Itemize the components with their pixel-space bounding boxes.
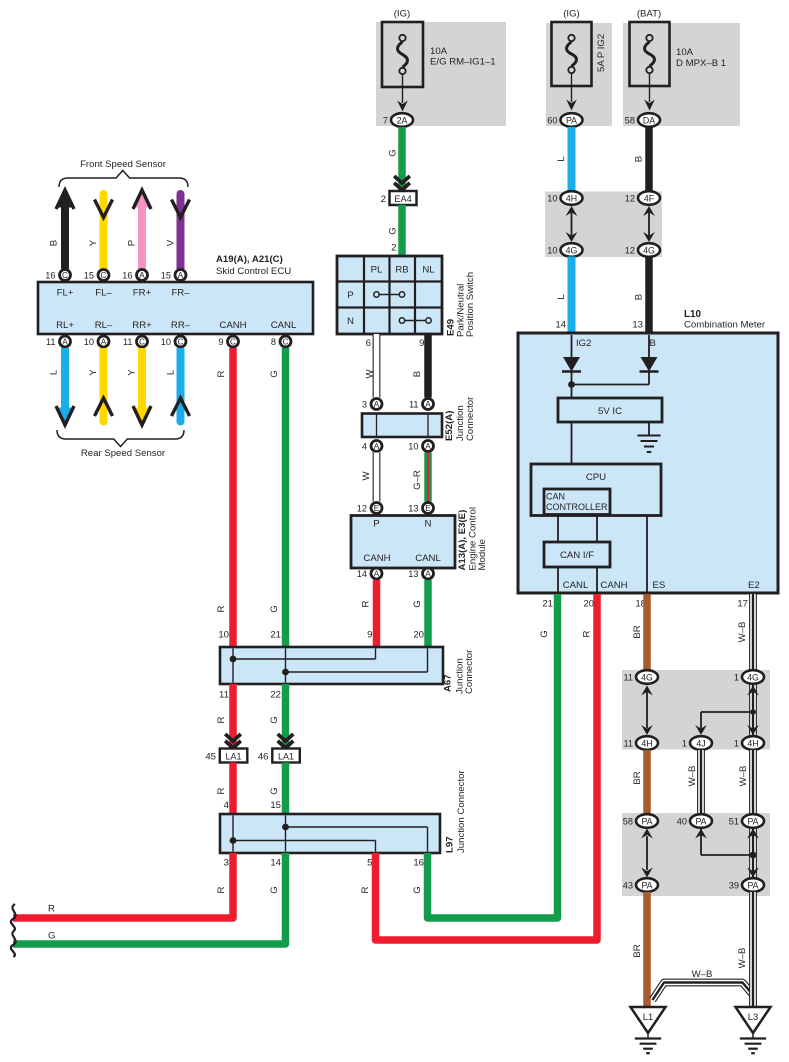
svg-text:W–B: W–B	[737, 948, 748, 969]
svg-text:5A P IG2: 5A P IG2	[596, 34, 607, 72]
wire G from ECM CANL	[424, 580, 432, 647]
svg-text:N: N	[347, 316, 354, 327]
svg-text:LA1: LA1	[225, 752, 241, 762]
wire 5V IC to CPU	[571, 422, 573, 464]
connector block PA	[622, 813, 770, 896]
svg-text:9: 9	[218, 337, 223, 347]
svg-text:ES: ES	[653, 580, 666, 591]
svg-text:FL–: FL–	[95, 288, 112, 299]
connector block 4G to 4H/4J	[622, 670, 770, 750]
connector 40 PA	[677, 814, 712, 828]
svg-text:11: 11	[219, 690, 229, 701]
svg-text:EA4: EA4	[394, 194, 411, 204]
svg-text:13: 13	[408, 569, 418, 579]
internal wiring and diodes	[562, 335, 659, 398]
svg-text:CAN: CAN	[546, 492, 565, 502]
svg-text:16: 16	[413, 858, 424, 869]
wire R L97 pin3 to left	[13, 853, 233, 918]
pin 11 A	[46, 336, 71, 347]
svg-text:CANH: CANH	[600, 580, 627, 591]
combination meter L10	[518, 333, 778, 593]
pin 16 C	[45, 270, 70, 281]
svg-text:Combination Meter: Combination Meter	[684, 320, 766, 331]
wires CAN controller to CAN I/F	[557, 516, 559, 543]
svg-text:16: 16	[122, 271, 132, 281]
pin 12 E	[357, 503, 382, 514]
svg-text:14: 14	[270, 858, 281, 869]
connector 58 PA	[623, 814, 658, 828]
svg-text:RL–: RL–	[95, 320, 113, 331]
svg-text:Y: Y	[88, 369, 99, 376]
svg-text:CANL: CANL	[563, 580, 589, 591]
connector 1 4H	[734, 736, 764, 750]
pin 10 A	[84, 336, 109, 347]
svg-text:21: 21	[270, 630, 281, 641]
svg-text:E52(A): E52(A)	[444, 411, 455, 441]
svg-text:C: C	[230, 338, 236, 347]
svg-text:W: W	[365, 369, 376, 379]
pin 8 C CANL	[271, 336, 291, 347]
svg-text:A67: A67	[443, 674, 454, 692]
svg-text:5: 5	[367, 858, 372, 869]
pass-through arrows	[648, 212, 650, 236]
svg-text:12: 12	[357, 504, 367, 514]
svg-text:3: 3	[224, 858, 229, 869]
svg-text:58: 58	[625, 116, 635, 126]
svg-text:(IG): (IG)	[563, 9, 580, 20]
svg-text:CANL: CANL	[271, 320, 297, 331]
svg-text:4J: 4J	[696, 738, 705, 748]
connector 39 PA	[729, 878, 764, 892]
connector block 4H/4F to 4G	[545, 192, 662, 258]
L10 pin numbers	[542, 599, 748, 610]
svg-text:Connector: Connector	[465, 396, 476, 441]
svg-text:C: C	[283, 338, 289, 347]
5V IC box	[558, 398, 662, 422]
svg-text:E/G RM–IG1–1: E/G RM–IG1–1	[430, 57, 496, 68]
svg-text:11: 11	[623, 739, 633, 749]
skid control ECU A19(A), A21(C)	[38, 282, 313, 334]
svg-text:11: 11	[409, 400, 419, 410]
junction dots	[230, 656, 237, 663]
svg-text:17: 17	[737, 599, 748, 610]
L10 bottom pin labels	[563, 580, 760, 591]
svg-text:B: B	[412, 371, 423, 377]
svg-text:CANL: CANL	[415, 553, 441, 564]
svg-text:10: 10	[84, 337, 94, 347]
connector 60 PA	[547, 113, 582, 127]
svg-text:9: 9	[419, 338, 424, 349]
pin numbers above L97	[224, 800, 281, 811]
pin 4 A	[362, 441, 382, 452]
svg-text:FR+: FR+	[133, 288, 152, 299]
svg-text:Connector: Connector	[464, 649, 475, 694]
wire FR- V (purple, chevron down)	[177, 190, 185, 269]
svg-text:W–B: W–B	[737, 622, 748, 643]
ground L1	[631, 1007, 666, 1053]
svg-text:(BAT): (BAT)	[637, 9, 661, 20]
svg-text:14: 14	[357, 569, 367, 579]
svg-text:45: 45	[205, 752, 216, 763]
svg-text:12: 12	[625, 194, 635, 204]
svg-text:A: A	[425, 442, 431, 451]
svg-text:W–B: W–B	[687, 766, 698, 787]
svg-text:10: 10	[218, 630, 229, 641]
junction dot	[568, 381, 575, 388]
svg-text:3: 3	[362, 400, 367, 410]
svg-text:9: 9	[367, 630, 372, 641]
internal ground	[638, 422, 661, 452]
svg-text:C: C	[62, 271, 68, 280]
svg-text:12: 12	[625, 246, 635, 256]
wire B to combination meter	[645, 257, 653, 336]
wire W-B link to L1	[653, 983, 754, 1001]
pin 3 A	[362, 399, 382, 410]
wire R L97 pin5 to L10 CANH	[376, 594, 598, 940]
svg-text:E: E	[425, 504, 431, 513]
svg-text:21: 21	[542, 599, 553, 610]
connector 46 LA1	[278, 734, 294, 741]
svg-text:CPU: CPU	[586, 472, 606, 483]
svg-text:15: 15	[270, 800, 281, 811]
svg-text:PA: PA	[747, 816, 758, 826]
branch to 4J and 4H	[701, 684, 753, 737]
wire break squiggle	[11, 930, 16, 957]
svg-text:A: A	[62, 338, 68, 347]
svg-text:G: G	[388, 149, 399, 156]
wire W-B from 4J	[697, 750, 705, 814]
wire G L97 pin16 to L10 CANL	[428, 594, 558, 918]
svg-text:B: B	[650, 338, 656, 349]
wire RL+ L (blue, arrow down)	[61, 348, 69, 411]
svg-text:CANH: CANH	[219, 320, 246, 331]
svg-text:PA: PA	[641, 880, 652, 890]
svg-text:A: A	[425, 400, 431, 409]
wire BR from ES	[643, 594, 651, 671]
svg-text:R: R	[216, 716, 227, 723]
wire R A67 to LA1	[229, 684, 237, 749]
wire BR between blocks	[643, 750, 651, 814]
svg-text:L: L	[49, 369, 60, 375]
branch arrows	[695, 686, 759, 736]
svg-text:PA: PA	[566, 115, 577, 125]
pin 13 A	[408, 568, 433, 579]
svg-text:P: P	[373, 519, 379, 530]
svg-text:BR: BR	[632, 625, 643, 638]
svg-text:IG2: IG2	[576, 338, 591, 349]
svg-text:4F: 4F	[644, 193, 655, 203]
svg-text:58: 58	[623, 817, 633, 827]
pass-through arrows	[646, 836, 648, 870]
svg-text:G: G	[539, 630, 550, 637]
svg-text:R: R	[216, 787, 227, 794]
svg-text:60: 60	[547, 116, 557, 126]
wire B from E49 pin 9	[424, 334, 432, 398]
pin 10 A	[408, 441, 433, 452]
svg-text:CAN I/F: CAN I/F	[560, 550, 594, 561]
svg-text:A: A	[139, 271, 145, 280]
svg-text:4H: 4H	[747, 738, 758, 748]
svg-text:R: R	[48, 904, 55, 915]
svg-text:46: 46	[258, 752, 269, 763]
svg-text:39: 39	[729, 881, 739, 891]
connector 58 DA	[625, 113, 660, 127]
svg-text:CONTROLLER: CONTROLLER	[546, 502, 608, 512]
svg-text:1: 1	[734, 739, 739, 749]
svg-text:51: 51	[729, 817, 739, 827]
svg-text:2: 2	[391, 243, 396, 254]
svg-text:15: 15	[161, 271, 171, 281]
svg-text:1: 1	[734, 673, 739, 683]
svg-text:4G: 4G	[641, 672, 653, 682]
svg-text:2: 2	[381, 194, 386, 205]
svg-text:L1: L1	[643, 1011, 653, 1022]
svg-text:G: G	[412, 886, 423, 893]
junction dots	[282, 824, 289, 831]
wire W-B from E2	[749, 594, 757, 671]
junction connector L97	[220, 814, 440, 853]
connector 45 LA1	[225, 734, 241, 741]
svg-text:22: 22	[270, 690, 281, 701]
wire W from E49 pin 6	[373, 334, 381, 398]
svg-text:20: 20	[413, 630, 424, 641]
svg-text:6: 6	[366, 338, 371, 349]
svg-text:B: B	[634, 294, 645, 300]
connector 10 4G	[547, 243, 582, 257]
svg-text:13: 13	[408, 504, 418, 514]
svg-text:R: R	[361, 600, 372, 607]
wire FR+ P (pink, arrow up)	[138, 204, 146, 269]
wire CPU to ES pin	[646, 516, 648, 593]
svg-text:8: 8	[271, 337, 276, 347]
wire G A67 to LA1	[282, 684, 290, 749]
connector 12 4G	[625, 243, 660, 257]
svg-text:10: 10	[161, 337, 171, 347]
svg-text:D MPX–B 1: D MPX–B 1	[676, 58, 726, 69]
svg-text:Y: Y	[127, 369, 138, 376]
svg-text:G: G	[269, 370, 280, 377]
svg-text:FL+: FL+	[57, 288, 74, 299]
svg-text:10A: 10A	[676, 47, 694, 58]
svg-text:W–B: W–B	[692, 969, 713, 980]
svg-text:40: 40	[677, 817, 687, 827]
pin 14 A	[357, 568, 382, 579]
connector 43 PA	[623, 878, 658, 892]
svg-text:10: 10	[547, 246, 557, 256]
wire RR- L (blue, chevron up)	[177, 348, 185, 426]
svg-text:A13(A), E3(E): A13(A), E3(E)	[457, 510, 468, 571]
svg-text:PL: PL	[371, 265, 383, 276]
svg-text:C: C	[139, 338, 145, 347]
pin 15 C	[84, 270, 109, 281]
svg-text:RB: RB	[395, 265, 408, 276]
CPU box	[531, 464, 661, 516]
svg-text:A: A	[101, 338, 107, 347]
pin numbers above A67	[218, 630, 424, 641]
junction connector E52(A)	[362, 414, 442, 438]
contact P: PL-RB	[377, 294, 403, 296]
svg-text:PA: PA	[695, 816, 706, 826]
svg-text:G: G	[269, 605, 280, 612]
svg-text:Module: Module	[477, 539, 488, 570]
CAN I/F box	[544, 542, 610, 567]
svg-text:B: B	[49, 240, 60, 246]
fuse (IG) 5A P IG2	[546, 23, 612, 126]
svg-text:N: N	[425, 519, 432, 530]
svg-text:W: W	[361, 471, 372, 481]
svg-text:NL: NL	[422, 265, 435, 276]
pin 16 A	[122, 270, 147, 281]
svg-text:CANH: CANH	[363, 553, 390, 564]
junction dot	[750, 852, 757, 859]
pin numbers below L97	[224, 858, 424, 869]
connector 1 4J	[682, 736, 712, 750]
wire W to ECM	[373, 453, 381, 502]
pin numbers below A67	[219, 690, 281, 701]
connector EA4 chevrons	[394, 176, 410, 183]
svg-text:BR: BR	[632, 944, 643, 957]
wire G-R to ECM	[424, 453, 432, 502]
fuse (IG) 10A E/G RM-IG1-1	[376, 22, 506, 126]
svg-text:PA: PA	[747, 880, 758, 890]
svg-text:R: R	[216, 370, 227, 377]
svg-text:R: R	[360, 886, 371, 893]
wire FL+ B (black, arrow up)	[61, 204, 69, 269]
brace front speed sensor	[59, 171, 188, 188]
fuse (BAT) 10A D MPX-B 1	[623, 23, 740, 126]
svg-text:FR–: FR–	[171, 288, 190, 299]
svg-text:(IG): (IG)	[394, 9, 411, 20]
svg-text:R: R	[582, 630, 593, 637]
svg-text:Skid Control ECU: Skid Control ECU	[216, 266, 291, 277]
svg-text:PA: PA	[641, 816, 652, 826]
svg-text:4: 4	[362, 442, 367, 452]
wire RR+ Y (yellow, arrow down)	[138, 348, 146, 411]
svg-text:Junction Connector: Junction Connector	[456, 770, 467, 853]
wire break squiggle	[11, 904, 16, 931]
wire B from fuse	[645, 127, 653, 193]
svg-text:43: 43	[623, 881, 633, 891]
svg-text:13: 13	[632, 320, 643, 331]
wire W-B from 4H	[749, 750, 757, 814]
pass-through arrows	[646, 692, 648, 728]
connector 10 4H	[547, 191, 582, 205]
svg-text:A: A	[374, 442, 380, 451]
pin 11 C	[123, 336, 148, 347]
svg-text:10A: 10A	[430, 46, 448, 57]
wire G LA1 to L97	[282, 763, 290, 815]
svg-text:4H: 4H	[566, 193, 577, 203]
wire G from fuse	[398, 127, 406, 190]
svg-text:A: A	[178, 271, 184, 280]
pin 15 A	[161, 270, 186, 281]
pin 13 E	[408, 503, 433, 514]
branch 40 to 51	[701, 828, 753, 879]
svg-text:4G: 4G	[747, 672, 759, 682]
pass-through arrows	[571, 212, 573, 236]
wire R LA1 to L97	[229, 763, 237, 815]
wire R CANH from skid ECU	[229, 348, 237, 647]
wire BR to ground L1	[643, 892, 651, 1007]
svg-text:C: C	[178, 338, 184, 347]
pass-through arrows	[695, 829, 759, 878]
brace rear speed sensor	[57, 430, 184, 447]
junction connector A67	[220, 647, 443, 684]
connector EA4	[390, 191, 417, 205]
svg-text:G: G	[269, 787, 280, 794]
svg-text:R: R	[216, 605, 227, 612]
junction dot	[750, 709, 756, 715]
svg-text:RR–: RR–	[171, 320, 191, 331]
svg-text:4H: 4H	[641, 738, 652, 748]
svg-text:LA1: LA1	[278, 752, 294, 762]
svg-text:A19(A), A21(C): A19(A), A21(C)	[216, 254, 283, 265]
wire L from fuse	[568, 127, 576, 193]
svg-text:A: A	[374, 570, 380, 579]
connector 11 4G	[623, 670, 658, 684]
svg-text:G: G	[388, 227, 399, 234]
svg-text:BR: BR	[632, 771, 643, 784]
wire G CANL from skid ECU	[282, 348, 290, 647]
svg-text:1: 1	[682, 739, 687, 749]
wire RL- Y (yellow, chevron up)	[100, 348, 108, 426]
connector 1 4G	[734, 670, 764, 684]
park/neutral position switch E49	[337, 256, 442, 334]
svg-text:P: P	[127, 240, 138, 246]
svg-text:E: E	[374, 504, 380, 513]
connector 12 4F	[625, 191, 660, 205]
svg-text:11: 11	[46, 337, 56, 347]
contact N: RB-NL	[402, 320, 429, 322]
svg-text:L: L	[166, 369, 177, 375]
svg-text:L97: L97	[445, 836, 456, 853]
svg-text:15: 15	[84, 271, 94, 281]
svg-text:G–R: G–R	[412, 470, 423, 490]
connector 51 PA	[729, 814, 764, 828]
svg-text:W–B: W–B	[738, 766, 749, 787]
svg-text:A: A	[374, 400, 380, 409]
svg-text:E2: E2	[748, 580, 760, 591]
pin 11 A	[409, 399, 434, 410]
wire L to combination meter	[568, 257, 576, 336]
svg-text:RR+: RR+	[132, 320, 152, 331]
svg-text:4G: 4G	[566, 245, 578, 255]
svg-text:10: 10	[547, 194, 557, 204]
svg-text:L: L	[556, 294, 567, 300]
svg-text:2A: 2A	[397, 115, 408, 125]
svg-text:V: V	[166, 239, 177, 246]
connector 11 4H	[623, 736, 658, 750]
svg-text:L: L	[556, 156, 567, 162]
wires CAN I/F to pins	[557, 567, 559, 592]
wire R from ECM CANH	[373, 580, 381, 647]
svg-text:4: 4	[224, 800, 230, 811]
engine control module A13(A), E3(E)	[351, 516, 455, 569]
connector 7 2A	[383, 113, 413, 127]
wire G L97 pin14 to left	[13, 853, 286, 944]
svg-text:A: A	[425, 570, 431, 579]
svg-text:L10: L10	[684, 309, 702, 320]
wire W-B to ground L3	[749, 892, 757, 1007]
svg-text:C: C	[101, 271, 107, 280]
svg-text:G: G	[269, 716, 280, 723]
svg-text:G: G	[412, 600, 423, 607]
svg-text:Rear Speed Sensor: Rear Speed Sensor	[81, 448, 166, 459]
svg-text:16: 16	[45, 271, 55, 281]
svg-text:Front Speed Sensor: Front Speed Sensor	[80, 159, 167, 170]
svg-text:Position Switch: Position Switch	[465, 272, 476, 337]
svg-text:14: 14	[555, 320, 566, 331]
